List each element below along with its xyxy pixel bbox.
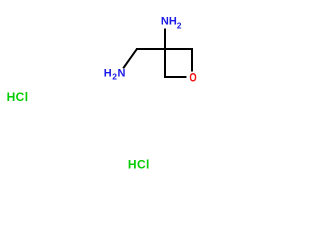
bond CH2-NH2 (diagonal): [123, 49, 137, 69]
svg-text:O: O: [189, 72, 196, 85]
oxetane ring right edge: [191, 48, 193, 72]
oxetane ring bottom edge: [164, 76, 187, 78]
bond C3-NH2 and oxetane ring left edge (vertical): [164, 29, 166, 79]
bond C3-CH2 arm and oxetane ring top edge (horizontal): [136, 48, 193, 50]
svg-text:HCl: HCl: [7, 90, 29, 104]
svg-text:HCl: HCl: [128, 157, 150, 171]
